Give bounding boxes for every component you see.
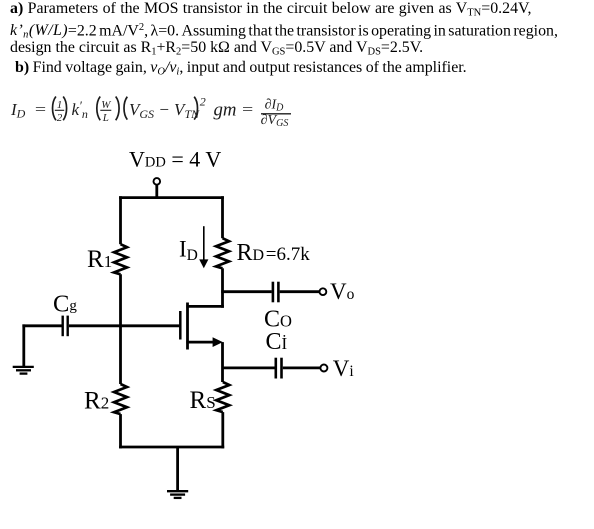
label VDD = 4 V — [129, 147, 221, 172]
wire gate lead — [69, 324, 180, 327]
svg-text:RD=6.7k: RD=6.7k — [237, 240, 311, 266]
capacitor Co — [273, 282, 279, 303]
svg-text:Cg: Cg — [53, 291, 77, 318]
label Cg — [53, 291, 77, 318]
svg-text:ID: ID — [10, 100, 26, 121]
equation fraction W/L — [100, 99, 111, 124]
svg-text:∂ID: ∂ID — [265, 98, 285, 114]
transistor M1 drain lead — [186, 305, 224, 308]
svg-text:ID: ID — [179, 237, 198, 265]
equation term gm — [214, 99, 237, 120]
svg-text:1: 1 — [57, 99, 63, 111]
equation equals sign 2 — [241, 102, 254, 119]
svg-text:Vo: Vo — [330, 279, 355, 304]
wire Co to Vo terminal — [280, 290, 320, 293]
ground left — [13, 367, 34, 374]
terminal VDD — [154, 178, 161, 185]
ground bottom — [167, 491, 188, 498]
label Co — [264, 306, 292, 332]
svg-text:∂VGS: ∂VGS — [261, 113, 289, 129]
wire source down — [221, 342, 224, 382]
paragraph a) line 1 — [10, 0, 531, 23]
wire RS lower — [221, 412, 224, 448]
equation fraction 1/2 — [55, 99, 64, 124]
paragraph b) line 4 — [15, 58, 467, 82]
wire bottom rail — [119, 446, 224, 449]
wire left branch upper — [119, 196, 122, 244]
current arrow ID — [199, 226, 208, 268]
svg-text:L: L — [102, 112, 109, 124]
capacitor Cg — [63, 316, 68, 337]
wire top rail — [119, 196, 224, 199]
equation open paren 3 — [124, 97, 127, 120]
label Vi — [333, 356, 355, 381]
wire left branch lower — [119, 414, 122, 448]
svg-text:RS: RS — [190, 387, 216, 414]
transistor M1 gate bar — [179, 311, 182, 340]
equation fraction dID/dVGS numerator — [265, 98, 285, 114]
resistor RS — [216, 382, 229, 412]
resistor R1 — [114, 244, 127, 274]
label Vo — [330, 279, 355, 304]
wire input down — [22, 324, 25, 366]
terminal Vi — [320, 365, 327, 372]
svg-text:Cİ: Cİ — [266, 329, 288, 355]
label R1 — [87, 246, 112, 273]
equation open paren 1 — [53, 97, 56, 121]
paragraph a) line 2 — [10, 18, 558, 45]
equation fraction bar — [261, 113, 291, 115]
wire Ci to Vi terminal — [283, 366, 320, 369]
svg-text:R1: R1 — [87, 246, 112, 273]
label ID — [179, 237, 198, 265]
svg-text:W: W — [101, 99, 111, 111]
label RD=6.7k — [237, 240, 311, 266]
label Ci — [266, 329, 288, 355]
wire right branch upper — [221, 196, 224, 238]
svg-text:Vi: Vi — [333, 356, 355, 381]
svg-text:VGS − VTN: VGS − VTN — [129, 100, 200, 121]
svg-text:=: = — [241, 102, 254, 119]
terminal Vo — [320, 288, 327, 295]
equation term VGS - VTN — [129, 100, 200, 121]
equation close paren 3 — [194, 97, 197, 120]
equation fraction dID/dVGS denominator — [261, 113, 289, 129]
equation open paren 2 — [97, 97, 100, 121]
equation close paren 2 — [116, 97, 119, 121]
svg-text:2: 2 — [200, 94, 206, 108]
wire ground stem — [176, 447, 179, 491]
svg-text:VDD = 4 V: VDD = 4 V — [129, 147, 221, 172]
equation superscript 2 — [200, 94, 206, 108]
wire source node to Ci — [223, 366, 275, 369]
svg-text:2: 2 — [57, 112, 63, 124]
equation equals sign 1 — [34, 102, 47, 119]
svg-text:k′n: k′n — [72, 98, 88, 121]
wire left branch middle — [119, 274, 122, 384]
wire Cg to input corner — [22, 324, 61, 327]
svg-text:=: = — [34, 102, 47, 119]
svg-text:gm: gm — [214, 99, 237, 120]
resistor RD — [216, 238, 229, 268]
label R2 — [84, 387, 109, 414]
wire right branch to drain — [221, 268, 224, 308]
paragraph a) line 3 — [10, 38, 423, 62]
capacitor Ci — [276, 358, 282, 379]
label RS — [190, 387, 216, 414]
wire drain node to Co — [221, 290, 271, 293]
equation close paren 1 — [63, 97, 66, 121]
equation term k'n — [72, 98, 88, 121]
svg-text:R2: R2 — [84, 387, 109, 414]
resistor R2 — [114, 384, 127, 414]
transistor M1 source lead with arrow — [186, 337, 223, 347]
transistor M1 channel bar — [186, 303, 189, 350]
wire VDD stub — [155, 185, 158, 199]
equation term ID — [10, 100, 26, 121]
